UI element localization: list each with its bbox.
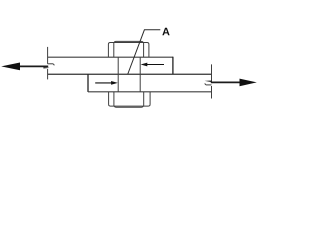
applied force arrow left (big) — [1, 63, 48, 71]
left break line — [48, 47, 55, 80]
applied force arrow right (big) — [211, 79, 257, 87]
right break line — [205, 64, 212, 98]
label A — [162, 28, 169, 35]
upper plate right end edge — [172, 57, 174, 75]
nut — [109, 92, 151, 107]
lower plate left end edge — [87, 74, 89, 92]
bolt head — [108, 41, 148, 57]
right break wedge tick — [205, 81, 212, 83]
bolt shank hole line left — [117, 57, 119, 92]
upper plate top edge — [48, 56, 173, 58]
friction arrow in upper plate (small, points left) — [141, 63, 164, 67]
lower plate bottom edge — [88, 91, 212, 93]
leader line to A — [128, 30, 161, 74]
bolt shank hole line right — [139, 57, 141, 92]
plate interface line (upper plate bottom / lower plate top) — [48, 73, 212, 75]
left break wedge tick — [43, 67, 49, 68]
friction arrow in lower plate (small, points right) — [95, 81, 118, 85]
